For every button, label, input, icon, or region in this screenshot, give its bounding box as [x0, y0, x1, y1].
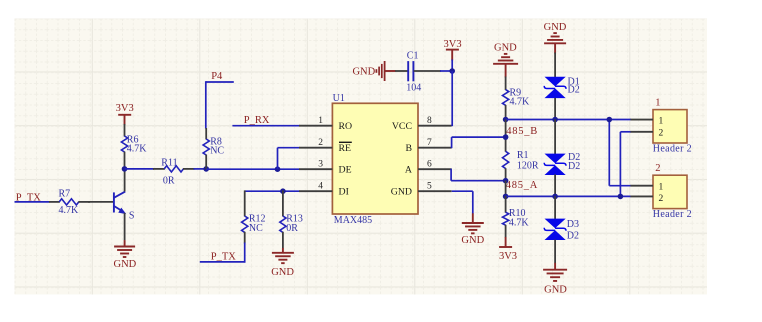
- ground GND (left of C1, sideways): [352, 61, 395, 81]
- junction D1 at 485_B: [552, 117, 558, 123]
- resistor R13: [280, 190, 286, 248]
- svg-text:DE: DE: [339, 165, 352, 176]
- pin 2 (top header): [630, 129, 663, 139]
- wire P_TX to R7: [15, 201, 50, 203]
- wire D3 to GND: [554, 240, 556, 264]
- wire pin7 step: [452, 137, 506, 148]
- svg-text:1: 1: [659, 182, 664, 192]
- wire branch to pin2: [278, 148, 300, 170]
- junction at pin7 net: [503, 134, 509, 140]
- label R7: [59, 188, 71, 199]
- label Header 2 (top): [653, 143, 692, 154]
- resistor R8: [203, 128, 209, 170]
- net label P_TX (left): [16, 192, 42, 203]
- svg-text:B: B: [405, 143, 412, 154]
- svg-text:NC: NC: [249, 223, 263, 234]
- svg-text:DI: DI: [339, 187, 349, 198]
- diode D2 (TVS): [544, 154, 566, 175]
- svg-text:2: 2: [659, 129, 664, 139]
- svg-text:4.7K: 4.7K: [59, 205, 80, 216]
- wire VCC node to pin8: [451, 71, 453, 126]
- svg-text:Header 2: Header 2: [653, 143, 692, 154]
- connector Header 2 (bottom) body: [653, 175, 687, 208]
- wire Q emitter down: [124, 213, 126, 240]
- svg-text:C1: C1: [407, 51, 419, 62]
- svg-text:S: S: [129, 211, 135, 222]
- svg-text:D2: D2: [567, 231, 579, 242]
- wire R1 to 485_A node: [505, 181, 507, 197]
- svg-text:NC: NC: [210, 146, 224, 157]
- diode D3 (TVS): [544, 219, 566, 240]
- value D2 (middle): [568, 161, 580, 172]
- diode D1 (TVS): [544, 77, 566, 98]
- resistor R7: [49, 199, 90, 205]
- svg-text:P_TX: P_TX: [211, 251, 237, 262]
- net label P_RX: [244, 115, 270, 126]
- value NC (R12): [249, 223, 263, 234]
- label U1: [333, 93, 345, 104]
- label S (transistor designator): [129, 211, 135, 222]
- net label P4: [211, 71, 223, 82]
- label D2: [568, 152, 580, 163]
- junction at 485_A node: [503, 194, 509, 200]
- ground GND (under R13): [271, 248, 294, 278]
- svg-text:GND: GND: [544, 285, 567, 296]
- ground GND (under transistor): [114, 240, 137, 270]
- svg-text:1: 1: [655, 98, 660, 109]
- pin 6 (A) right: [405, 160, 452, 176]
- pin 1 (RO) left: [299, 116, 352, 132]
- value 4.7K (R6): [127, 144, 148, 155]
- wire R8 junction to pin3: [206, 168, 299, 170]
- wire R9 node down to R1: [505, 120, 507, 152]
- label D1: [568, 77, 580, 88]
- wire P4 stub: [206, 81, 234, 128]
- svg-text:A: A: [405, 165, 412, 176]
- wire R11 to R8 junction: [194, 168, 207, 170]
- svg-text:GND: GND: [544, 22, 567, 33]
- svg-text:2: 2: [659, 194, 664, 204]
- value D2 (D1): [568, 85, 580, 96]
- svg-text:1: 1: [659, 116, 664, 126]
- svg-text:4.7K: 4.7K: [510, 97, 531, 108]
- svg-text:2: 2: [318, 138, 323, 148]
- svg-text:R7: R7: [59, 188, 71, 199]
- junction at R13 top: [280, 188, 286, 194]
- label C1: [407, 51, 419, 62]
- ground GND (above R9, inverted): [493, 42, 518, 77]
- svg-text:D3: D3: [567, 219, 579, 230]
- junction 485_A branch: [618, 194, 624, 200]
- ground GND (IC pin5): [461, 213, 484, 246]
- power 3V3 (above VCC): [444, 39, 462, 61]
- pin 1 (top header): [630, 116, 663, 126]
- svg-text:485_B: 485_B: [506, 126, 538, 137]
- svg-text:120R: 120R: [517, 160, 539, 171]
- junction at 485_B node: [503, 117, 509, 123]
- value D2 (D3): [567, 231, 579, 242]
- resistor R12: [242, 190, 248, 243]
- value 0R (R13): [286, 223, 298, 234]
- label Header 2 (bottom): [653, 209, 692, 220]
- value 4.7K (R7): [59, 205, 80, 216]
- net label P_TX (second): [211, 251, 237, 262]
- wire P_TX2 to R12: [200, 243, 246, 263]
- resistor R10: [503, 196, 509, 238]
- label R6: [127, 134, 139, 145]
- label R13: [286, 213, 303, 224]
- wire D2 to 485_A: [554, 174, 556, 196]
- svg-text:P4: P4: [211, 71, 223, 82]
- label R9: [510, 88, 522, 99]
- wire D1 to 485_B: [554, 98, 556, 120]
- svg-text:Header 2: Header 2: [653, 209, 692, 220]
- pin 4 (DI) left: [299, 182, 349, 198]
- svg-text:1: 1: [318, 116, 323, 126]
- wire 3V3 down to node: [451, 60, 453, 72]
- wire DI net to pin4: [245, 190, 300, 192]
- junction D2 at 485_A: [552, 194, 558, 200]
- svg-text:GND: GND: [114, 259, 137, 270]
- junction 485_B branch: [607, 117, 613, 123]
- connector Header 2 (top) body: [653, 110, 687, 143]
- svg-text:D2: D2: [568, 85, 580, 96]
- svg-text:R11: R11: [161, 158, 177, 169]
- value 4.7K (R10): [509, 218, 530, 229]
- junction at RE branch: [275, 166, 281, 172]
- overline on RE: [339, 141, 352, 143]
- ground GND (below D3): [543, 263, 567, 296]
- value 120R (R1): [517, 160, 539, 171]
- pin 7 (B) right: [405, 138, 451, 154]
- svg-text:4.7K: 4.7K: [127, 144, 148, 155]
- resistor R6: [121, 124, 127, 169]
- schematic sheet background: [15, 19, 708, 295]
- svg-text:RO: RO: [339, 121, 353, 132]
- wire R7 to Q base: [88, 201, 113, 203]
- resistor R1: [503, 151, 509, 181]
- svg-text:4: 4: [318, 182, 323, 192]
- svg-text:RE: RE: [339, 143, 352, 154]
- svg-text:3: 3: [318, 160, 323, 170]
- pin 2 (RE) left: [299, 138, 351, 154]
- svg-text:GND: GND: [391, 187, 412, 198]
- wire GND to D1: [554, 53, 556, 78]
- label MAX485: [334, 215, 372, 226]
- wire Q collector up: [124, 169, 126, 192]
- label R8: [210, 137, 222, 148]
- label D3: [567, 219, 579, 230]
- svg-text:VCC: VCC: [392, 121, 412, 132]
- value 4.7K (R9): [510, 97, 531, 108]
- label R11: [161, 158, 177, 169]
- pin 8 (VCC) right: [392, 116, 452, 132]
- pin 5 (GND) right: [391, 182, 452, 198]
- wire P_RX to pin1: [232, 125, 299, 127]
- svg-text:485_A: 485_A: [506, 180, 538, 191]
- net label 485_B: [506, 126, 538, 137]
- svg-text:D2: D2: [568, 161, 580, 172]
- svg-text:GND: GND: [461, 235, 484, 246]
- svg-text:0R: 0R: [163, 176, 175, 187]
- capacitor C1: [395, 61, 441, 81]
- svg-text:8: 8: [427, 116, 432, 126]
- value 0R (R11): [163, 176, 175, 187]
- designator 2 (bottom header): [655, 163, 660, 174]
- wire branch 485_B to header2 pin1: [609, 120, 631, 186]
- svg-text:MAX485: MAX485: [334, 215, 372, 226]
- wire pin5 to GND: [452, 191, 473, 213]
- svg-text:P_RX: P_RX: [244, 115, 270, 126]
- pin 3 (DE) left: [299, 160, 352, 176]
- value 104 (C1): [406, 82, 421, 93]
- svg-text:7: 7: [427, 138, 432, 148]
- pin 1 (bottom header): [630, 182, 663, 192]
- net 485_A wire: [506, 195, 631, 197]
- junction at R6/R11/collector: [122, 166, 128, 172]
- net label 485_A: [506, 180, 538, 191]
- pin 2 (bottom header): [630, 194, 663, 204]
- wire pin6 step: [451, 169, 506, 181]
- svg-text:GND: GND: [271, 267, 294, 278]
- designator 1 (top header): [655, 98, 660, 109]
- svg-text:0R: 0R: [286, 223, 298, 234]
- junction at VCC node: [449, 68, 455, 74]
- label R10: [509, 208, 526, 219]
- svg-text:U1: U1: [333, 93, 345, 104]
- op-amp U1 body (MAX485 box): [332, 103, 418, 214]
- svg-text:GND: GND: [494, 42, 517, 53]
- junction at pin6 net: [503, 178, 509, 184]
- value NC (R8): [210, 146, 224, 157]
- wire 485_A to D3: [554, 196, 556, 219]
- svg-text:3V3: 3V3: [499, 251, 517, 262]
- svg-text:4.7K: 4.7K: [509, 218, 530, 229]
- transistor S (NPN): [113, 192, 126, 215]
- svg-text:2: 2: [655, 163, 660, 174]
- wire 485_B to D2: [554, 120, 556, 155]
- power 3V3 (below R10, inverted): [499, 237, 517, 262]
- power 3V3 (left): [116, 103, 134, 125]
- wire branch 485_A to header1 pin2: [620, 132, 631, 197]
- net 485_B wire: [506, 119, 631, 121]
- wire C1 to VCC node: [440, 70, 452, 72]
- label R1: [517, 150, 529, 161]
- wire R6 to R11: [125, 168, 155, 170]
- svg-text:3V3: 3V3: [116, 103, 134, 114]
- resistor R11: [153, 166, 195, 172]
- junction at R8 bottom: [203, 166, 209, 172]
- svg-text:104: 104: [406, 82, 421, 93]
- svg-text:5: 5: [427, 182, 432, 192]
- ground GND (above D1, inverted): [544, 22, 567, 54]
- resistor R9: [503, 77, 509, 121]
- svg-text:6: 6: [427, 160, 432, 170]
- svg-text:GND: GND: [352, 67, 375, 78]
- label R12: [249, 213, 266, 224]
- svg-text:3V3: 3V3: [444, 39, 462, 50]
